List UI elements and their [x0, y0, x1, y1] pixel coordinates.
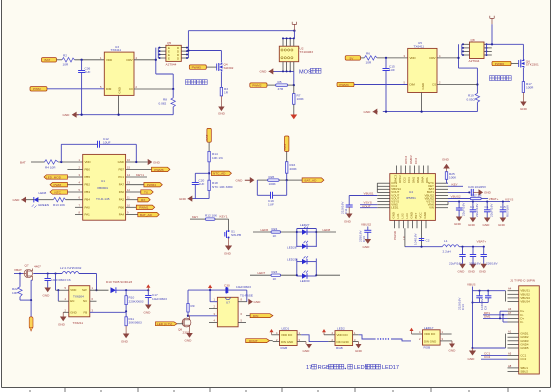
svg-text:4407: 4407: [34, 265, 41, 269]
svg-text:VDD: VDD: [106, 58, 112, 62]
svg-text:104/16V: 104/16V: [414, 233, 418, 245]
GND rail of U3: [77, 114, 173, 116]
wire BAT to R2: [57, 59, 63, 61]
wire NTC bottom rail: [193, 198, 210, 200]
svg-text:GND: GND: [392, 212, 396, 218]
port PWM2: [250, 83, 267, 88]
wire R6 to VDD: [377, 57, 408, 59]
svg-text:LED7: LED7: [258, 271, 266, 275]
svg-text:J1 TYPE-C-16PIN: J1 TYPE-C-16PIN: [510, 279, 535, 283]
resistor R9 pullup: [187, 290, 195, 317]
svg-text:CC2: CC2: [520, 357, 526, 361]
svg-text:NC: NC: [83, 299, 87, 303]
svg-text:R23: R23: [272, 270, 278, 274]
capacitor C17 10uF: [144, 290, 168, 314]
svg-text:LED1: LED1: [391, 206, 399, 210]
svg-text:DOUT: DOUT: [249, 339, 258, 343]
net 5V arrow LED2: [322, 329, 335, 335]
svg-text:C3: C3: [470, 205, 474, 209]
wire R5 to node: [288, 84, 295, 86]
pin stubs U4 top: [397, 166, 429, 174]
wire Q4 to R3: [220, 72, 222, 88]
svg-text:PA7: PA7: [119, 183, 125, 187]
port BAT vertical 2: [283, 136, 289, 151]
svg-text:A8: A8: [508, 364, 512, 368]
svg-text:GND: GND: [179, 197, 187, 201]
battery terminal probe: [29, 317, 33, 332]
wire GND pin: [58, 312, 69, 326]
svg-text:NTC 10K 3380: NTC 10K 3380: [212, 185, 233, 189]
svg-text:LX: LX: [402, 236, 406, 240]
port PWM5: [189, 65, 206, 70]
svg-text:PA6: PA6: [119, 190, 125, 194]
svg-text:BAT_AD: BAT_AD: [305, 179, 318, 183]
svg-text:VDD: VDD: [70, 288, 76, 292]
port PWM row4: [50, 183, 67, 188]
capacitor C5 after L1: [479, 247, 498, 274]
annotation moonlight drive: [186, 80, 191, 85]
svg-text:A2T944: A2T944: [166, 62, 177, 66]
svg-text:R13 10K: R13 10K: [53, 203, 66, 207]
svg-text:PWM4: PWM4: [147, 183, 157, 187]
svg-text:C1: C1: [485, 205, 489, 209]
svg-text:Q7: Q7: [25, 264, 29, 268]
wire to R6: [361, 57, 365, 59]
svg-text:LED8: LED8: [39, 191, 47, 195]
svg-text:LED27: LED27: [300, 223, 310, 227]
net arrow 5V above rail: [208, 285, 212, 291]
IC U8 TX6211: [65, 286, 94, 325]
svg-text:LED (4.7V): LED (4.7V): [157, 322, 172, 326]
svg-text:GND: GND: [479, 270, 487, 274]
svg-text:GND: GND: [468, 223, 476, 227]
svg-text:D-: D-: [520, 320, 523, 324]
resistor R2 10R: [62, 54, 75, 67]
wire FB to divider: [90, 311, 126, 313]
net KEY right: [448, 182, 463, 186]
ground below Q9: [185, 331, 193, 343]
svg-text:BAT: BAT: [205, 135, 209, 141]
svg-text:DMA: DMA: [421, 177, 425, 183]
power VCC1: [292, 22, 296, 31]
wire VDD/EN left: [56, 274, 69, 302]
svg-text:R4 10R: R4 10R: [45, 166, 56, 170]
svg-text:TX104M3: TX104M3: [300, 50, 314, 54]
svg-text:PWM1: PWM1: [139, 206, 149, 210]
svg-text:200K: 200K: [290, 167, 298, 171]
net VBUS2 cap C13: [359, 223, 372, 243]
svg-text:1UF: 1UF: [199, 182, 205, 186]
svg-text:0.05Ω: 0.05Ω: [467, 97, 476, 101]
svg-text:GND: GND: [13, 198, 21, 202]
svg-text:GND: GND: [520, 107, 528, 111]
svg-text:PA2: PA2: [119, 198, 125, 202]
ground arrow left U2: [260, 68, 274, 74]
svg-text:LED6: LED6: [261, 228, 269, 232]
resistor R7 100K: [293, 85, 305, 104]
transistor Q7 AO4407: [23, 264, 41, 281]
svg-text:R26: R26: [269, 175, 275, 179]
svg-text:R24: R24: [272, 227, 278, 231]
ground LED1: [303, 342, 313, 353]
svg-text:CS: CS: [432, 83, 436, 87]
svg-text:GND: GND: [449, 349, 457, 353]
svg-text:GREEN: GREEN: [38, 203, 49, 207]
wire rail down to pin1: [210, 290, 217, 302]
svg-text:GND5: GND5: [520, 346, 528, 350]
wire C0 pin to R8 node: [134, 88, 174, 90]
svg-text:LED1: LED1: [354, 365, 368, 371]
svg-text:100R: 100R: [526, 86, 534, 90]
wire U2 bottom stubs to gnd rail: [274, 62, 294, 85]
svg-text:VBUS2: VBUS2: [361, 223, 371, 227]
svg-text:VBUS4: VBUS4: [520, 300, 530, 304]
svg-text:10uF/0603: 10uF/0603: [236, 285, 251, 289]
svg-text:R2: R2: [63, 54, 67, 58]
net labels above U4: [404, 155, 418, 164]
capacitor C12 10UF top loop: [61, 137, 136, 162]
port LED(4.7V) harness: [156, 322, 184, 326]
capacitor C7 after L1: [468, 247, 481, 274]
svg-text:1UF: 1UF: [389, 68, 395, 72]
net VBUS at connector: [467, 282, 506, 349]
wire Q6 to R17: [522, 68, 524, 82]
resistor R11 30K: [121, 317, 142, 344]
svg-text:GND: GND: [58, 323, 66, 327]
wire CC1 CC2: [481, 352, 508, 360]
svg-text:MOS: MOS: [299, 70, 312, 76]
svg-text:PA4: PA4: [119, 213, 125, 217]
svg-text:GND: GND: [363, 245, 371, 249]
ground arrow left of R26: [236, 177, 255, 183]
svg-text:SBU2: SBU2: [520, 370, 528, 374]
ground below R3: [218, 96, 226, 116]
svg-text:RGB: RGB: [336, 346, 343, 350]
svg-text:GND: GND: [254, 300, 262, 304]
svg-text:LED_MOD: LED_MOD: [46, 175, 62, 179]
svg-text:DM1: DM1: [412, 177, 416, 183]
ground below C13: [363, 239, 372, 249]
svg-text:GND: GND: [63, 113, 71, 117]
pin stubs U4 right: [435, 183, 448, 208]
svg-text:GND: GND: [118, 87, 122, 93]
capacitor C8 after L1: [449, 247, 466, 274]
svg-text:KEY1: KEY1: [136, 173, 144, 177]
svg-text:PA0: PA0: [85, 205, 91, 209]
svg-text:RX: RX: [141, 198, 145, 202]
svg-text:PB5: PB5: [85, 175, 91, 179]
svg-text:DPA: DPA: [425, 177, 429, 183]
transistor array Q8 A2T944: [462, 38, 492, 63]
svg-text:BAT: BAT: [45, 58, 51, 62]
svg-text:R12 10K: R12 10K: [205, 214, 218, 218]
svg-text:17: 17: [306, 365, 312, 371]
net 5V arrow LED17: [410, 328, 423, 334]
port PWM6: [492, 61, 511, 66]
resistor R26 100K: [257, 175, 286, 186]
svg-text:LED17: LED17: [424, 326, 434, 330]
svg-text:VBAT: VBAT: [14, 268, 22, 272]
dotted continuation: [377, 338, 389, 339]
svg-text:DIM: DIM: [106, 87, 112, 91]
wire top rail: [188, 30, 295, 32]
svg-text:DIN: DIN: [253, 314, 258, 318]
svg-text:U7: U7: [226, 301, 230, 305]
svg-text:KEY: KEY: [192, 215, 198, 219]
svg-text:GND: GND: [260, 70, 268, 74]
wire L2 to SW: [79, 274, 98, 292]
svg-text:30K/0603: 30K/0603: [129, 321, 143, 325]
svg-text:VDD: VDD: [410, 56, 416, 60]
wire DRV to Q5 bus and CS loop: [155, 48, 174, 89]
svg-text:TX6411: TX6411: [111, 48, 122, 52]
svg-text:TX-D-145: TX-D-145: [96, 197, 110, 201]
svg-text:SW-PB: SW-PB: [231, 233, 241, 237]
wire Q5 right bus to top rail and Q4: [187, 31, 221, 63]
wire top rail to L2: [33, 272, 62, 274]
LED30: [296, 271, 318, 283]
svg-text:DRV: DRV: [127, 58, 133, 62]
capacitor C15 1UF: [383, 58, 395, 112]
port PWM3: [337, 82, 354, 87]
svg-text:VDD DO: VDD DO: [424, 332, 436, 336]
svg-text:226/16V: 226/16V: [486, 262, 498, 266]
capacitor C14 22uF: [458, 291, 483, 310]
svg-text:GND: GND: [468, 270, 476, 274]
svg-text:Q8: Q8: [471, 38, 475, 42]
svg-text:A5: A5: [508, 352, 512, 356]
svg-text:10uF/0603 C6: 10uF/0603 C6: [51, 278, 71, 282]
wire LX rail to L1: [405, 228, 442, 247]
resistor R16 200K: [286, 151, 298, 181]
ground arrow below VBUS rail: [468, 348, 477, 361]
port DOUT harness lower: [246, 339, 273, 343]
svg-text:GND: GND: [144, 311, 152, 315]
svg-text:22uF/16V: 22uF/16V: [490, 203, 494, 217]
svg-text:VDD DO: VDD DO: [337, 333, 349, 337]
svg-text:U4: U4: [409, 190, 413, 194]
resistor R22 10K: [12, 274, 31, 301]
svg-text:GND: GND: [344, 220, 352, 224]
svg-text:PWM3: PWM3: [339, 83, 349, 87]
svg-text:A2T944: A2T944: [469, 59, 480, 63]
net KEY and resistor R12 10K: [190, 214, 229, 221]
svg-text:L2 4.7uH/CD32: L2 4.7uH/CD32: [60, 266, 82, 270]
svg-text:EN: EN: [70, 299, 74, 303]
svg-text:GND: GND: [185, 339, 193, 343]
resistor R17 100R: [522, 82, 534, 93]
svg-text:PWM5: PWM5: [192, 66, 202, 70]
svg-text:L1: L1: [444, 239, 448, 243]
GND rail of U5: [383, 110, 478, 112]
transistor Q9 MOSFET maroon: [178, 316, 191, 335]
svg-text:LX2: LX2: [401, 213, 405, 219]
capacitor group on VSYS: C3: [468, 202, 479, 227]
svg-text:LED1: LED1: [282, 327, 290, 331]
svg-text:DIN GND: DIN GND: [281, 340, 293, 344]
resistor R10 220K: [125, 290, 144, 317]
svg-text:A4: A4: [508, 287, 512, 291]
svg-text:22uF/16V: 22uF/16V: [449, 262, 463, 266]
svg-text:E: E: [168, 57, 170, 61]
ground arrow left U3: [63, 112, 79, 118]
svg-text:PA1: PA1: [85, 213, 91, 217]
svg-text:CC2: CC2: [414, 158, 418, 164]
port BAT_AD row8: [138, 212, 159, 217]
svg-text:VIN: VIN: [429, 206, 434, 210]
svg-text:PWM: PWM: [54, 183, 62, 187]
svg-text:DMC2: DMC2: [394, 174, 398, 183]
power arrow down after R7: [290, 104, 297, 119]
port NTC_AD: [211, 171, 231, 176]
ground arrow left of LED: [13, 197, 27, 203]
svg-text:GND: GND: [153, 160, 161, 164]
svg-text:C11: C11: [344, 208, 348, 214]
wire Q5 left bus: [157, 48, 159, 58]
svg-text:GND: GND: [421, 83, 425, 89]
svg-text:NTC_AD: NTC_AD: [213, 172, 226, 176]
svg-text:D10 7905 SOD123: D10 7905 SOD123: [106, 280, 132, 284]
svg-text:FB: FB: [84, 310, 88, 314]
ground arrow right of U1 pin16: [135, 159, 160, 165]
svg-text:GND: GND: [454, 222, 462, 226]
svg-text:C15: C15: [500, 205, 506, 209]
svg-text:STK2301: STK2301: [526, 63, 539, 67]
svg-text:LED17: LED17: [382, 365, 399, 371]
svg-text:PB4: PB4: [85, 198, 91, 202]
LED28: [287, 231, 317, 250]
wire U2 top stubs to rail: [282, 31, 295, 47]
svg-text:C9: C9: [484, 306, 488, 310]
capacitor C30 10uF: [224, 284, 251, 294]
LED27: [297, 223, 317, 247]
svg-text:VDD: VDD: [85, 160, 91, 164]
wire PWM to DIM pin: [47, 88, 104, 90]
wire VSYS left: [360, 201, 377, 209]
capacitor C29 104/25V: [448, 185, 487, 196]
LED29: [287, 256, 316, 276]
port 5V: [345, 56, 360, 61]
svg-text:GND: GND: [118, 160, 124, 164]
net VBUS2 with R27: [448, 193, 499, 201]
port PWM6 right row2: [152, 167, 170, 172]
svg-text:A1: A1: [508, 330, 512, 334]
net 5V arrow LED1: [270, 329, 280, 335]
svg-text:A7: A7: [508, 311, 512, 315]
svg-text:PWM6: PWM6: [495, 62, 505, 66]
resistor R8 0.082: [159, 89, 176, 115]
port LED_MOD: [44, 175, 67, 180]
svg-text:GND: GND: [498, 223, 506, 227]
svg-text:22uF/16V: 22uF/16V: [462, 202, 466, 216]
svg-text:R6: R6: [366, 52, 370, 56]
svg-text:PGND: PGND: [393, 230, 397, 240]
svg-text:GND: GND: [355, 349, 363, 353]
svg-text:D: D: [177, 57, 179, 61]
resistor R14 10K 1%: [208, 142, 223, 180]
diode D10 SS34: [106, 280, 149, 293]
RGB LED17: [419, 326, 452, 350]
svg-text:DMC2: DMC2: [409, 155, 413, 164]
capacitor group on VSYS: C16: [454, 202, 466, 226]
pin stubs U4 left: [377, 183, 390, 208]
svg-text:VDD DO: VDD DO: [281, 333, 293, 337]
switch S1 SW-PB: [225, 219, 241, 238]
IC U4 IP5351: [390, 174, 436, 221]
svg-text:LED30: LED30: [300, 279, 310, 283]
IC U2: [279, 46, 313, 62]
wire R9 node to U7 pin3: [188, 315, 217, 317]
svg-text:KEY: KEY: [452, 182, 458, 186]
capacitor group on VSYS: C15b: [498, 202, 510, 227]
svg-text:10UF: 10UF: [103, 140, 111, 144]
RGB LED2: [328, 327, 358, 350]
svg-text:GND: GND: [43, 294, 51, 298]
svg-text:RGB: RGB: [424, 346, 431, 350]
capacitor C2 104 on bottom stub: [414, 233, 430, 245]
pullup R25 with GND above: [442, 158, 457, 184]
svg-text:BAT: BAT: [20, 160, 26, 164]
svg-text:C29 104/25V: C29 104/25V: [468, 185, 487, 189]
svg-text:DIN GND: DIN GND: [337, 340, 349, 344]
port TX row5: [141, 190, 153, 195]
svg-text:BAT: BAT: [283, 144, 287, 150]
svg-text:PWM: PWM: [33, 87, 41, 91]
LED D1 GREEN with R13: [26, 191, 83, 208]
svg-text:A6: A6: [508, 307, 512, 311]
port NTC row5: [50, 190, 67, 195]
resistor R19 0.05: [467, 93, 480, 111]
port BAT vertical: [205, 128, 211, 142]
resistor R5 47R: [267, 80, 288, 91]
svg-text:22uF/16V: 22uF/16V: [475, 203, 479, 217]
svg-text:SI2302: SI2302: [224, 66, 234, 70]
wire PWM5 to Q4 gate: [206, 66, 216, 68]
resistor R6 10R: [364, 52, 377, 65]
svg-text:PB0: PB0: [85, 167, 91, 171]
capacitor C19 1UF loop: [257, 180, 286, 206]
svg-text:DRV: DRV: [430, 56, 436, 60]
svg-text:TX6411: TX6411: [414, 45, 425, 49]
svg-text:RGB: RGB: [281, 346, 288, 350]
RGB LED1: [273, 327, 306, 350]
svg-text:GND: GND: [458, 270, 466, 274]
svg-text:PWM6: PWM6: [154, 168, 164, 172]
resistor R3 1R: [220, 87, 229, 96]
wire LED row1 out: [316, 228, 336, 232]
capacitor group on VSYS: C1: [483, 202, 494, 227]
ground arrow down S1: [224, 238, 232, 255]
svg-text:GND: GND: [364, 110, 372, 114]
capacitor C20 1UF: [192, 173, 209, 198]
svg-text:220K/0603: 220K/0603: [129, 299, 144, 303]
svg-text:BST: BST: [414, 213, 418, 219]
svg-text:LX3: LX3: [405, 213, 409, 219]
svg-text:R5: R5: [278, 80, 282, 84]
svg-text:RGB: RGB: [318, 365, 330, 371]
wire DO2 onward: [359, 335, 376, 339]
wire LED+ rail: [188, 289, 225, 291]
svg-text:GND: GND: [121, 340, 129, 344]
ground arrow left U5: [364, 109, 378, 115]
svg-text:2.2uH: 2.2uH: [443, 250, 451, 254]
svg-text:C30: C30: [224, 284, 230, 288]
svg-text:GND: GND: [423, 212, 427, 218]
svg-text:PB3: PB3: [85, 190, 91, 194]
net arrow LED+ above C17: [146, 284, 150, 290]
svg-text:GND: GND: [484, 191, 492, 195]
wire PWM3 to DIM: [354, 84, 408, 86]
